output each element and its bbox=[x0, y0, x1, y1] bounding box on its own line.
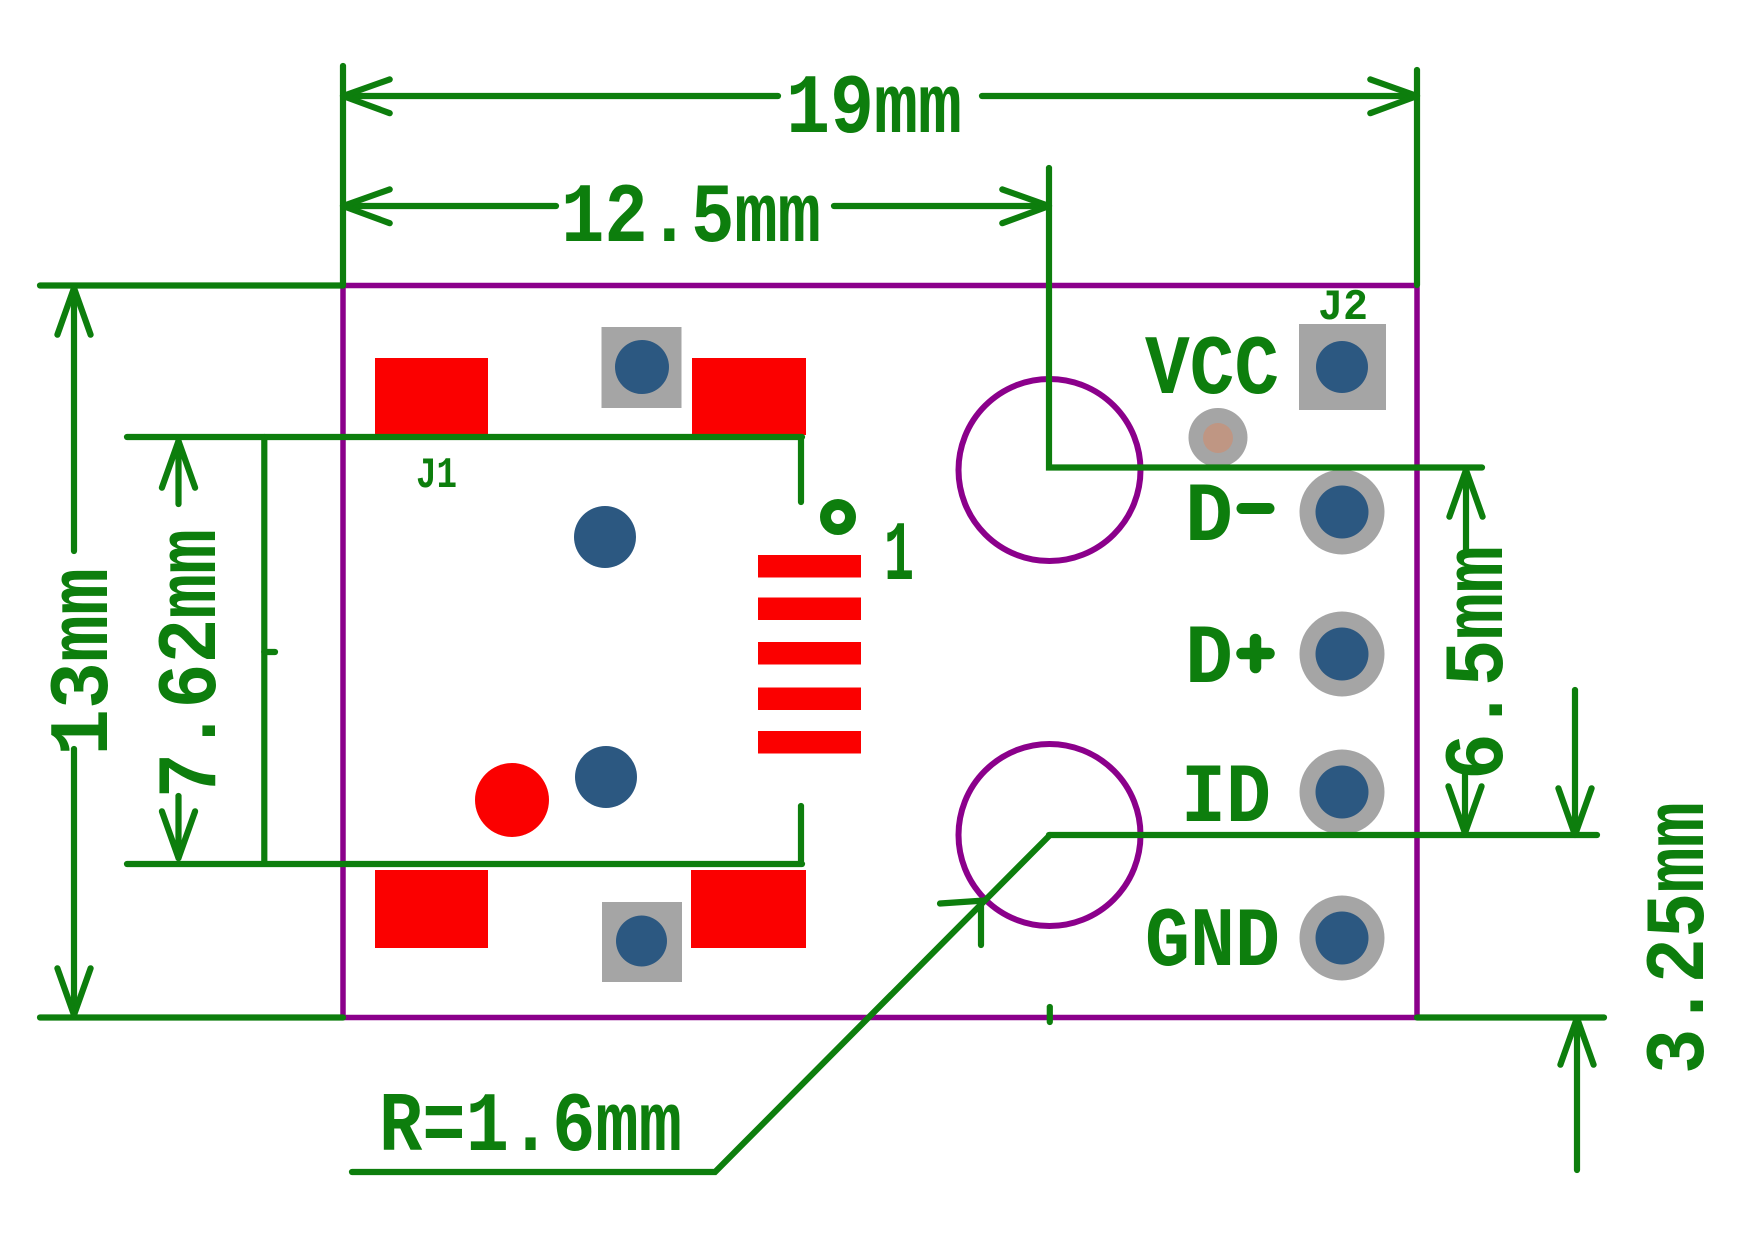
dim 6.5mm arrow up bbox=[1449, 470, 1482, 552]
leader R=1.6mm line bbox=[352, 835, 1050, 1172]
dim 19mm line bbox=[343, 93, 1417, 99]
dim 3.25mm arrow up bbox=[1560, 1018, 1593, 1170]
red drill circle bbox=[475, 763, 549, 837]
dim 7.62mm arrow up bbox=[162, 441, 195, 488]
pad J1 shield top-left bbox=[375, 358, 488, 435]
svg-text:12.5mm: 12.5mm bbox=[561, 172, 821, 267]
svg-text:J2: J2 bbox=[1318, 283, 1368, 333]
pad J1 mount top (square) bbox=[602, 327, 682, 408]
dim 19mm arrow left bbox=[343, 79, 390, 113]
dim 19mm extension line right bbox=[1414, 70, 1420, 285]
svg-text:D: D bbox=[1185, 471, 1233, 566]
dim 7.62mm extension line bottom bbox=[127, 806, 802, 864]
svg-text:1: 1 bbox=[884, 510, 914, 605]
svg-text:3.25mm: 3.25mm bbox=[1634, 802, 1729, 1074]
dim 13mm line bbox=[71, 288, 77, 1015]
hole J1 peg bottom bbox=[575, 746, 637, 808]
pad J1 pin strip 2 bbox=[758, 598, 861, 621]
svg-text:VCC: VCC bbox=[1145, 324, 1279, 419]
dim 13mm arrow up bbox=[57, 288, 90, 335]
pad J2 pin5 GND bbox=[1300, 896, 1385, 981]
pin 1 marker ring bbox=[826, 505, 851, 530]
dim 7.62mm boundary line bbox=[261, 437, 267, 863]
mounting hole top R=1.6mm bbox=[959, 379, 1141, 561]
via bbox=[1189, 408, 1248, 467]
dim 12.5mm arrow right bbox=[1002, 189, 1049, 223]
dim 6.5mm line bottom / hole center line bbox=[1049, 832, 1597, 838]
pad J1 pin strip 4 bbox=[758, 688, 861, 711]
dim 7.62mm extension line top bbox=[127, 437, 802, 502]
svg-text:J1: J1 bbox=[416, 451, 457, 501]
pad J1 pin strip 1 bbox=[758, 555, 861, 578]
dim 7.62mm line bbox=[175, 441, 181, 858]
leader R=1.6mm arrowhead bbox=[940, 901, 983, 945]
pad J1 shield bottom-right bbox=[691, 870, 806, 948]
svg-text:R=1.6mm: R=1.6mm bbox=[379, 1081, 682, 1176]
dim 12.5mm arrow left bbox=[343, 189, 390, 223]
dim 7.62mm arrow down bbox=[162, 811, 195, 858]
dim 13mm arrow down bbox=[57, 968, 90, 1015]
svg-text:19mm: 19mm bbox=[786, 63, 962, 158]
dim 6.5mm arrow down bbox=[1448, 771, 1481, 833]
svg-text:GND: GND bbox=[1145, 896, 1280, 991]
svg-text:13mm: 13mm bbox=[38, 568, 133, 756]
svg-text:ID: ID bbox=[1181, 752, 1271, 847]
pad J2 pin2 D- bbox=[1300, 470, 1385, 555]
dim 12.5mm line bbox=[343, 203, 1049, 209]
pad J1 shield bottom-left bbox=[375, 870, 488, 948]
svg-text:7.62mm: 7.62mm bbox=[146, 529, 241, 798]
dim 3.25mm bottom reference line bbox=[1417, 1014, 1604, 1020]
bottom edge center tick bbox=[1047, 1007, 1053, 1022]
dim 7.62mm mid tick bbox=[264, 649, 275, 655]
dim 19mm arrow right bbox=[1370, 79, 1417, 113]
pad J1 pin strip 3 bbox=[758, 642, 861, 665]
pad J2 pin3 D+ bbox=[1300, 612, 1385, 697]
dim 3.25mm arrow down bbox=[1558, 690, 1591, 835]
dim 13mm extension line bottom bbox=[40, 1014, 343, 1020]
hole J1 peg top bbox=[574, 506, 636, 568]
dim 12.5mm extension line to hole center bbox=[1049, 168, 1482, 468]
pad J2 pin1 VCC (square) bbox=[1299, 324, 1386, 410]
board outline (Edge.Cuts) bbox=[343, 286, 1417, 1018]
mounting hole bottom R=1.6mm bbox=[959, 744, 1141, 926]
svg-text:6.5mm: 6.5mm bbox=[1433, 546, 1528, 780]
pad J2 pin4 ID bbox=[1300, 750, 1385, 835]
dim 13mm extension line top bbox=[40, 282, 343, 288]
dim 19mm extension line left bbox=[340, 66, 346, 285]
pad J1 pin strip 5 bbox=[758, 731, 861, 754]
pad J1 shield top-right bbox=[692, 358, 806, 435]
svg-text:D: D bbox=[1185, 613, 1233, 708]
pad J1 mount bottom (square) bbox=[602, 902, 682, 982]
